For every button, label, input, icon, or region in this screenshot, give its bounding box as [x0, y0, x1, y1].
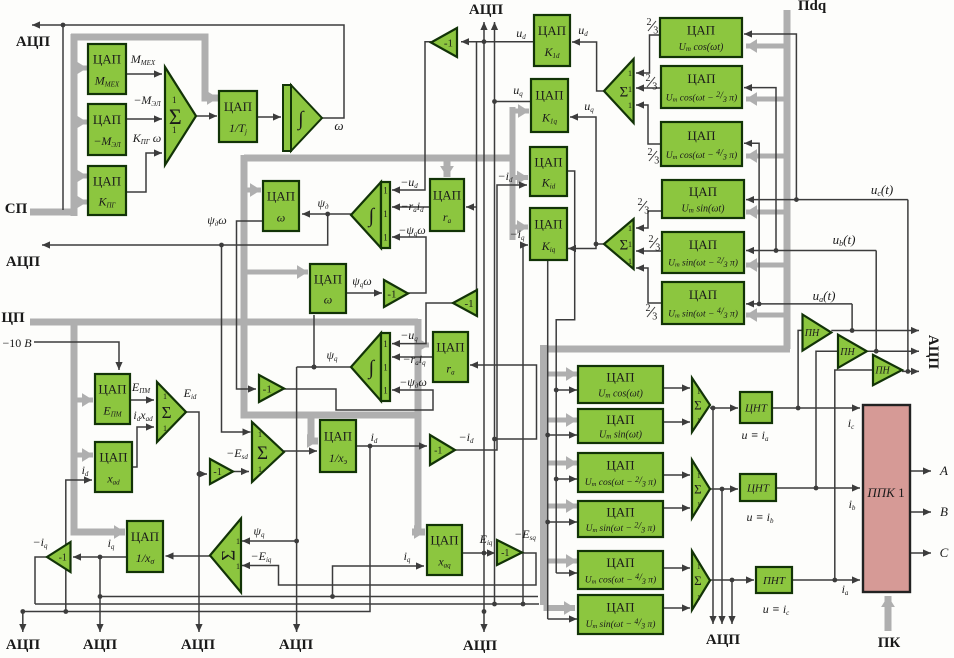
svg-text:Σ: Σ — [257, 443, 268, 464]
svg-text:-1: -1 — [387, 288, 396, 300]
svg-text:С: С — [940, 545, 949, 560]
svg-text:ЦАП: ЦАП — [689, 184, 717, 199]
svg-text:1: 1 — [697, 594, 701, 602]
svg-text:ЦАП: ЦАП — [98, 382, 126, 397]
svg-text:3: 3 — [652, 82, 657, 93]
svg-text:ЦАП: ЦАП — [224, 99, 252, 114]
svg-text:2: 2 — [649, 234, 654, 245]
svg-text:ПН: ПН — [839, 347, 855, 358]
svg-text:ПК: ПК — [878, 635, 901, 651]
svg-text:2: 2 — [638, 197, 643, 208]
svg-text:3: 3 — [655, 243, 660, 254]
svg-text:Σ: Σ — [219, 550, 240, 561]
svg-text:ЦАП: ЦАП — [606, 412, 634, 427]
svg-text:uc(t): uc(t) — [871, 182, 893, 198]
svg-text:1: 1 — [163, 424, 167, 433]
svg-text:1: 1 — [236, 537, 240, 546]
svg-text:ЦАП: ЦАП — [436, 340, 464, 355]
svg-text:1: 1 — [236, 562, 240, 571]
svg-text:ЦАП: ЦАП — [99, 450, 127, 465]
svg-text:u ≡ ib: u ≡ ib — [747, 510, 774, 525]
svg-text:АЦП: АЦП — [83, 637, 118, 653]
svg-text:−ψqω: −ψqω — [398, 223, 426, 238]
svg-text:ЦАП: ЦАП — [314, 271, 342, 286]
svg-text:2: 2 — [648, 147, 653, 158]
svg-text:1: 1 — [697, 417, 701, 425]
svg-text:ЦАП: ЦАП — [131, 529, 159, 544]
svg-text:Пdq: Пdq — [798, 0, 827, 14]
svg-text:ω: ω — [334, 118, 343, 133]
svg-text:1/Тj: 1/Тj — [229, 121, 247, 136]
svg-text:−10 В: −10 В — [2, 336, 32, 350]
svg-text:Σ: Σ — [694, 482, 702, 497]
svg-text:ЦНТ: ЦНТ — [746, 482, 770, 494]
svg-text:ЦАП: ЦАП — [538, 23, 566, 38]
svg-text:ЦАП: ЦАП — [534, 216, 562, 231]
svg-text:ЦАП: ЦАП — [267, 189, 295, 204]
svg-text:1: 1 — [628, 257, 632, 266]
svg-text:2: 2 — [646, 73, 651, 84]
svg-text:ЦАП: ЦАП — [606, 370, 634, 385]
svg-text:АЦП: АЦП — [463, 638, 498, 654]
svg-text:ПНТ: ПНТ — [762, 575, 786, 587]
svg-text:АЦП: АЦП — [925, 335, 941, 370]
svg-text:1: 1 — [383, 209, 388, 219]
svg-text:1: 1 — [383, 186, 388, 196]
svg-text:Σ: Σ — [619, 84, 628, 100]
svg-text:АЦП: АЦП — [279, 637, 314, 653]
svg-text:-1: -1 — [263, 383, 272, 395]
svg-text:ua(t): ua(t) — [813, 288, 836, 304]
svg-text:2: 2 — [646, 303, 651, 314]
svg-text:ЦАП: ЦАП — [606, 555, 634, 570]
svg-text:ПН: ПН — [874, 366, 890, 377]
svg-text:1: 1 — [628, 101, 632, 110]
svg-text:ПН: ПН — [804, 328, 820, 339]
svg-text:3: 3 — [644, 206, 649, 217]
svg-text:В: В — [940, 504, 948, 519]
svg-text:Um sin(ωt): Um sin(ωt) — [599, 429, 643, 440]
svg-text:АЦП: АЦП — [6, 254, 41, 270]
svg-text:АЦП: АЦП — [181, 637, 216, 653]
svg-text:ЦАП: ЦАП — [324, 428, 352, 443]
svg-text:-1: -1 — [213, 467, 221, 478]
svg-text:1: 1 — [628, 85, 632, 94]
svg-text:ЦАП: ЦАП — [430, 533, 458, 548]
svg-text:Σ: Σ — [619, 237, 628, 253]
svg-text:ЦАП: ЦАП — [93, 112, 121, 127]
svg-text:Σ: Σ — [694, 398, 702, 413]
svg-text:ЦАП: ЦАП — [93, 173, 121, 188]
svg-text:u ≡ ia: u ≡ ia — [742, 428, 769, 443]
svg-text:ω: ω — [277, 210, 285, 224]
svg-text:ЦАП: ЦАП — [606, 457, 634, 472]
svg-text:ЦАП: ЦАП — [689, 237, 717, 252]
svg-text:1: 1 — [258, 430, 262, 439]
svg-text:−ψдω: −ψдω — [399, 375, 427, 390]
svg-text:1: 1 — [383, 233, 388, 243]
svg-text:2: 2 — [647, 17, 652, 28]
svg-text:Σ: Σ — [162, 403, 172, 422]
svg-text:Σ: Σ — [694, 573, 702, 588]
svg-text:1: 1 — [628, 69, 632, 78]
svg-text:3: 3 — [654, 156, 659, 167]
svg-text:1: 1 — [258, 465, 262, 474]
svg-text:ЦАП: ЦАП — [689, 287, 717, 302]
svg-text:-1: -1 — [59, 553, 67, 564]
svg-text:СП: СП — [5, 201, 28, 217]
svg-text:Um sin(ωt): Um sin(ωt) — [682, 203, 726, 214]
svg-text:1: 1 — [172, 125, 177, 135]
svg-text:1: 1 — [697, 388, 701, 396]
svg-text:Um cos(ωt): Um cos(ωt) — [679, 42, 724, 53]
svg-text:ЦАП: ЦАП — [433, 187, 461, 202]
svg-text:А: А — [939, 463, 948, 478]
svg-text:3: 3 — [652, 312, 657, 323]
svg-text:ЦАП: ЦАП — [606, 504, 634, 519]
svg-text:-1: -1 — [464, 298, 473, 310]
svg-text:-1: -1 — [434, 446, 442, 457]
svg-text:АЦП: АЦП — [706, 632, 741, 648]
svg-text:1: 1 — [697, 563, 701, 571]
svg-text:1: 1 — [383, 363, 388, 373]
svg-text:ППК 1: ППК 1 — [866, 485, 904, 500]
svg-text:АЦП: АЦП — [16, 34, 51, 50]
svg-text:1: 1 — [172, 95, 177, 105]
svg-text:1: 1 — [628, 224, 632, 233]
svg-text:ЦП: ЦП — [1, 310, 25, 326]
svg-text:3: 3 — [653, 26, 658, 37]
svg-text:ЦАП: ЦАП — [687, 71, 715, 86]
svg-text:ЦАП: ЦАП — [606, 599, 634, 614]
svg-text:ЦАП: ЦАП — [687, 128, 715, 143]
svg-text:Um cos(ωt): Um cos(ωt) — [598, 389, 643, 400]
svg-text:1: 1 — [383, 339, 388, 349]
svg-text:1: 1 — [628, 240, 632, 249]
svg-text:ЦАП: ЦАП — [93, 52, 121, 67]
svg-text:1: 1 — [163, 392, 167, 401]
svg-text:1: 1 — [383, 386, 388, 396]
svg-text:ЦНТ: ЦНТ — [744, 402, 768, 414]
svg-text:ЦАП: ЦАП — [687, 22, 715, 37]
svg-text:ub(t): ub(t) — [833, 232, 856, 248]
svg-text:1: 1 — [697, 501, 701, 509]
svg-text:1: 1 — [697, 472, 701, 480]
svg-text:ω: ω — [324, 293, 332, 307]
svg-text:ЦАП: ЦАП — [535, 88, 563, 103]
svg-text:АЦП: АЦП — [469, 2, 504, 18]
svg-text:u ≡ ic: u ≡ ic — [763, 602, 790, 617]
svg-text:-1: -1 — [444, 37, 453, 49]
svg-text:ЦАП: ЦАП — [534, 154, 562, 169]
svg-text:-1: -1 — [501, 548, 509, 559]
svg-text:АЦП: АЦП — [6, 637, 41, 653]
